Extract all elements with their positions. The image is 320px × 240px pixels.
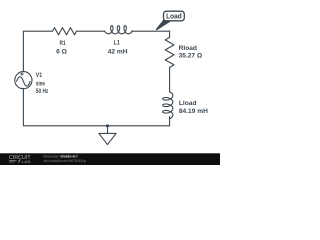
wire bottom left	[23, 89, 107, 126]
V1 plus sign	[21, 73, 24, 76]
svg-text:LAB: LAB	[22, 159, 31, 164]
wire top right	[132, 30, 170, 32]
V1 sine wave	[17, 77, 31, 86]
wire left top	[22, 31, 24, 71]
svg-text:84.19 mH: 84.19 mH	[179, 108, 208, 115]
footer bar	[0, 153, 220, 165]
inductor L1	[105, 26, 133, 34]
ground stub	[107, 126, 109, 134]
svg-text:sine: sine	[36, 80, 45, 87]
svg-text:6 Ω: 6 Ω	[56, 48, 67, 55]
ground triangle	[99, 133, 116, 144]
wire top-left horizontal	[23, 30, 52, 32]
V1 minus sign	[21, 87, 24, 89]
footer logo lines	[9, 161, 17, 162]
wire right bottom	[108, 117, 170, 126]
svg-text:Lload: Lload	[179, 100, 197, 107]
wire right corner down	[169, 31, 171, 37]
Load callout box	[164, 11, 185, 21]
svg-text:42 mH: 42 mH	[108, 48, 128, 55]
inductor Lload	[163, 92, 173, 119]
wire top middle	[77, 30, 105, 32]
resistor R1	[53, 28, 77, 35]
resistor Rload	[165, 37, 174, 67]
svg-text:R1: R1	[60, 40, 66, 47]
svg-text:V1: V1	[36, 72, 43, 79]
footer logo lightning	[18, 160, 21, 164]
junction dot ground	[106, 124, 109, 127]
svg-text:http://circuitlab.com/c/966726: http://circuitlab.com/c/966726262h4p	[44, 159, 87, 163]
Load callout tail	[156, 20, 170, 30]
svg-text:Rload: Rload	[179, 45, 197, 52]
svg-text:35.27 Ω: 35.27 Ω	[179, 53, 203, 60]
svg-text:L1: L1	[114, 39, 120, 46]
wire right middle	[169, 67, 171, 91]
voltage source V1 circle	[15, 72, 32, 89]
svg-text:50 Hz: 50 Hz	[36, 88, 49, 95]
svg-text:Load: Load	[166, 12, 182, 21]
